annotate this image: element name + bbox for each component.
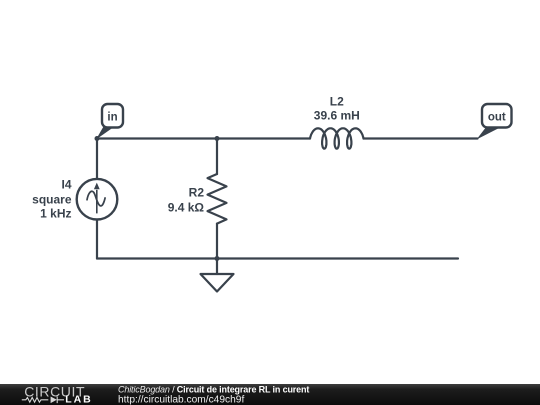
svg-text:1 kHz: 1 kHz bbox=[40, 207, 71, 221]
svg-text:39.6 mH: 39.6 mH bbox=[314, 109, 360, 123]
logo diode triangle bbox=[51, 397, 57, 404]
junction node R2 bottom / ground bbox=[215, 256, 220, 261]
wire bottom rail bbox=[97, 257, 458, 259]
flag box in bbox=[102, 104, 123, 128]
wire R2 top stub bbox=[216, 139, 218, 175]
resistor R2 zigzag bbox=[208, 174, 227, 224]
svg-text:ChiticBogdan / Circuit de inte: ChiticBogdan / Circuit de integrare RL i… bbox=[118, 385, 309, 395]
wire ground stem bbox=[216, 259, 218, 275]
wire left vertical lower (I4 bottom to bottom rail) bbox=[96, 220, 98, 259]
flag tail in bbox=[96, 127, 115, 140]
svg-text:out: out bbox=[488, 111, 506, 123]
svg-text:http://circuitlab.com/c49ch9f: http://circuitlab.com/c49ch9f bbox=[118, 395, 244, 405]
current source I4 arrow line bbox=[96, 190, 98, 214]
svg-text:L2: L2 bbox=[330, 95, 344, 109]
inductor L2 bbox=[310, 128, 364, 148]
current source I4 arrowhead bbox=[94, 183, 100, 190]
wire left vertical upper (node in to I4 top) bbox=[96, 139, 98, 180]
junction node R2 top bbox=[215, 136, 220, 141]
current source I4 circle bbox=[77, 179, 118, 220]
wire top-right (L2 to out) bbox=[364, 137, 478, 139]
wire top-left (in node to R2 node) bbox=[97, 137, 310, 139]
svg-text:I4: I4 bbox=[61, 178, 71, 192]
junction node in bbox=[95, 136, 100, 141]
current source I4 sine glyph bbox=[87, 191, 105, 206]
flag box out bbox=[482, 104, 512, 128]
svg-text:LAB: LAB bbox=[65, 394, 93, 405]
svg-text:9.4 kΩ: 9.4 kΩ bbox=[168, 200, 205, 214]
flag tail out bbox=[477, 127, 503, 140]
svg-text:R2: R2 bbox=[189, 186, 205, 200]
svg-text:square: square bbox=[32, 193, 72, 207]
wire R2 bottom stub bbox=[216, 224, 218, 259]
svg-text:in: in bbox=[107, 112, 117, 124]
logo wire zigzag and diode bbox=[22, 397, 64, 404]
ground symbol triangle bbox=[201, 274, 234, 292]
